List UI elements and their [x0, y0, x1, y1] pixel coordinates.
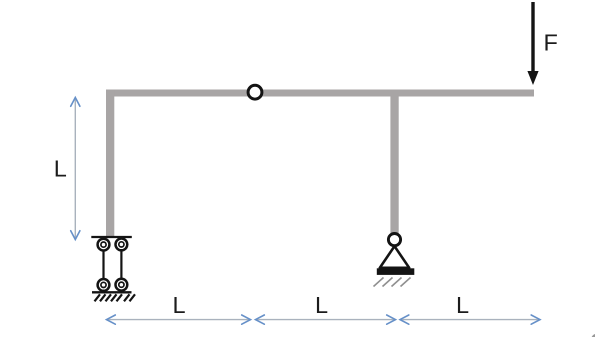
bottom-right link circle: [116, 279, 128, 291]
left column (vertical gray member): [106, 90, 114, 237]
svg-text:L: L: [54, 156, 67, 182]
left support: pendulum links: [91, 237, 135, 301]
link bars: [102, 251, 104, 280]
force F arrow: [527, 2, 538, 85]
bottom-left link circle: [98, 279, 110, 291]
span 1 line: [107, 319, 251, 321]
ground hatching: [95, 294, 136, 301]
svg-text:L: L: [173, 292, 186, 318]
bottom dimension arrows: [107, 319, 541, 321]
triangle: [380, 246, 409, 268]
top-right link circle: [116, 239, 128, 251]
span 3 line: [400, 319, 540, 321]
top-left link circle: [98, 239, 110, 251]
svg-text:L: L: [315, 292, 328, 318]
base plate: [377, 268, 415, 275]
span 2 heads: [256, 315, 265, 324]
middle support: pin: [374, 234, 415, 287]
span 3 heads: [400, 315, 409, 324]
span 1 heads: [107, 315, 116, 324]
pin circle: [388, 234, 400, 246]
span 2 line: [256, 319, 396, 321]
beam (horizontal gray member): [106, 90, 534, 97]
middle column (vertical gray member): [390, 96, 398, 233]
left dimension arrow L (vertical): [74, 98, 76, 240]
ground line: [92, 291, 132, 293]
top plate: [91, 236, 132, 238]
ground hatching (gray): [374, 278, 411, 287]
corner artifact bottom-right: [591, 334, 595, 337]
svg-text:L: L: [456, 292, 469, 318]
svg-text:F: F: [544, 30, 558, 56]
hinge O on beam: [248, 85, 262, 99]
